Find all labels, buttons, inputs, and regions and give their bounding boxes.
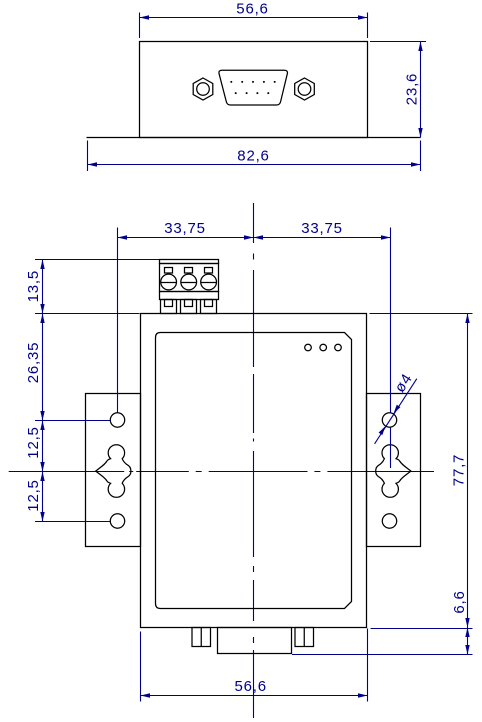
svg-text:ø4: ø4 <box>391 370 416 395</box>
dim 82,6 extension lines <box>87 141 89 172</box>
right clover slot <box>376 445 411 498</box>
DB9 pins row2 <box>235 92 237 94</box>
left clover slot <box>96 445 131 498</box>
dim 33,75 extension lines <box>117 228 119 413</box>
dia 4 leader line <box>375 379 417 444</box>
right hex standoff <box>295 78 315 100</box>
dim 23,6 dimension line <box>420 42 422 138</box>
left chain dimension line <box>42 260 44 522</box>
dim 6,6 extension line <box>292 654 473 656</box>
dim 77,7 extension lines <box>370 313 473 315</box>
dim 56,6 top dimension line <box>140 17 368 19</box>
bottom DB9 shell <box>218 628 292 654</box>
inner cover rounded rect <box>156 333 352 609</box>
terminal pin notches <box>165 300 173 307</box>
svg-text:33,75: 33,75 <box>164 220 206 237</box>
dim 56,6 bottom dimension line <box>141 695 368 697</box>
svg-text:82,6: 82,6 <box>237 148 269 165</box>
terminal screws <box>161 274 177 290</box>
main body outline <box>141 314 367 628</box>
DB9 connector trapezoid <box>219 70 288 105</box>
left mounting ear <box>86 394 141 547</box>
terminal block top strip <box>160 260 219 264</box>
bottom right screw post <box>295 628 314 647</box>
vertical centerline <box>253 203 255 718</box>
dim 56,6 top extension lines <box>139 13 141 39</box>
horizontal centerline <box>9 471 434 473</box>
terminal block main body <box>160 264 219 292</box>
right ear top hole <box>382 413 396 427</box>
DB9 pins row1 <box>230 81 275 94</box>
svg-text:23,6: 23,6 <box>404 73 421 105</box>
left chain extension lines <box>35 259 160 261</box>
front body outline <box>140 42 368 138</box>
svg-text:26,35: 26,35 <box>25 342 42 384</box>
svg-text:77,7: 77,7 <box>451 454 468 486</box>
svg-text:13,5: 13,5 <box>25 270 42 302</box>
left hex standoff <box>193 78 213 100</box>
LED holes <box>305 344 312 351</box>
left ear bottom hole <box>110 514 124 528</box>
dim 56,6 bottom extension lines <box>140 632 142 702</box>
right ear bottom hole <box>382 514 396 528</box>
right mounting ear <box>367 394 421 547</box>
bottom left screw post <box>192 628 211 647</box>
dim 23,6 right extension line <box>370 41 426 43</box>
terminal block mid strip <box>160 292 219 300</box>
svg-text:56,6: 56,6 <box>234 678 266 695</box>
dim 6,6 dimension line <box>467 628 469 655</box>
svg-text:12,5: 12,5 <box>25 479 42 511</box>
left ear top hole <box>110 413 124 427</box>
front mounting flange edge line <box>87 137 421 139</box>
dim 77,7 dimension line <box>467 314 469 628</box>
terminal screw squares <box>165 268 173 274</box>
svg-text:56,6: 56,6 <box>236 1 268 18</box>
dim 82,6 dimension line <box>88 164 421 166</box>
terminal pins <box>161 300 177 314</box>
svg-text:33,75: 33,75 <box>301 220 343 237</box>
svg-text:12,5: 12,5 <box>25 426 42 458</box>
dim 33,75 dimension line <box>118 237 391 239</box>
svg-text:6,6: 6,6 <box>451 590 468 613</box>
